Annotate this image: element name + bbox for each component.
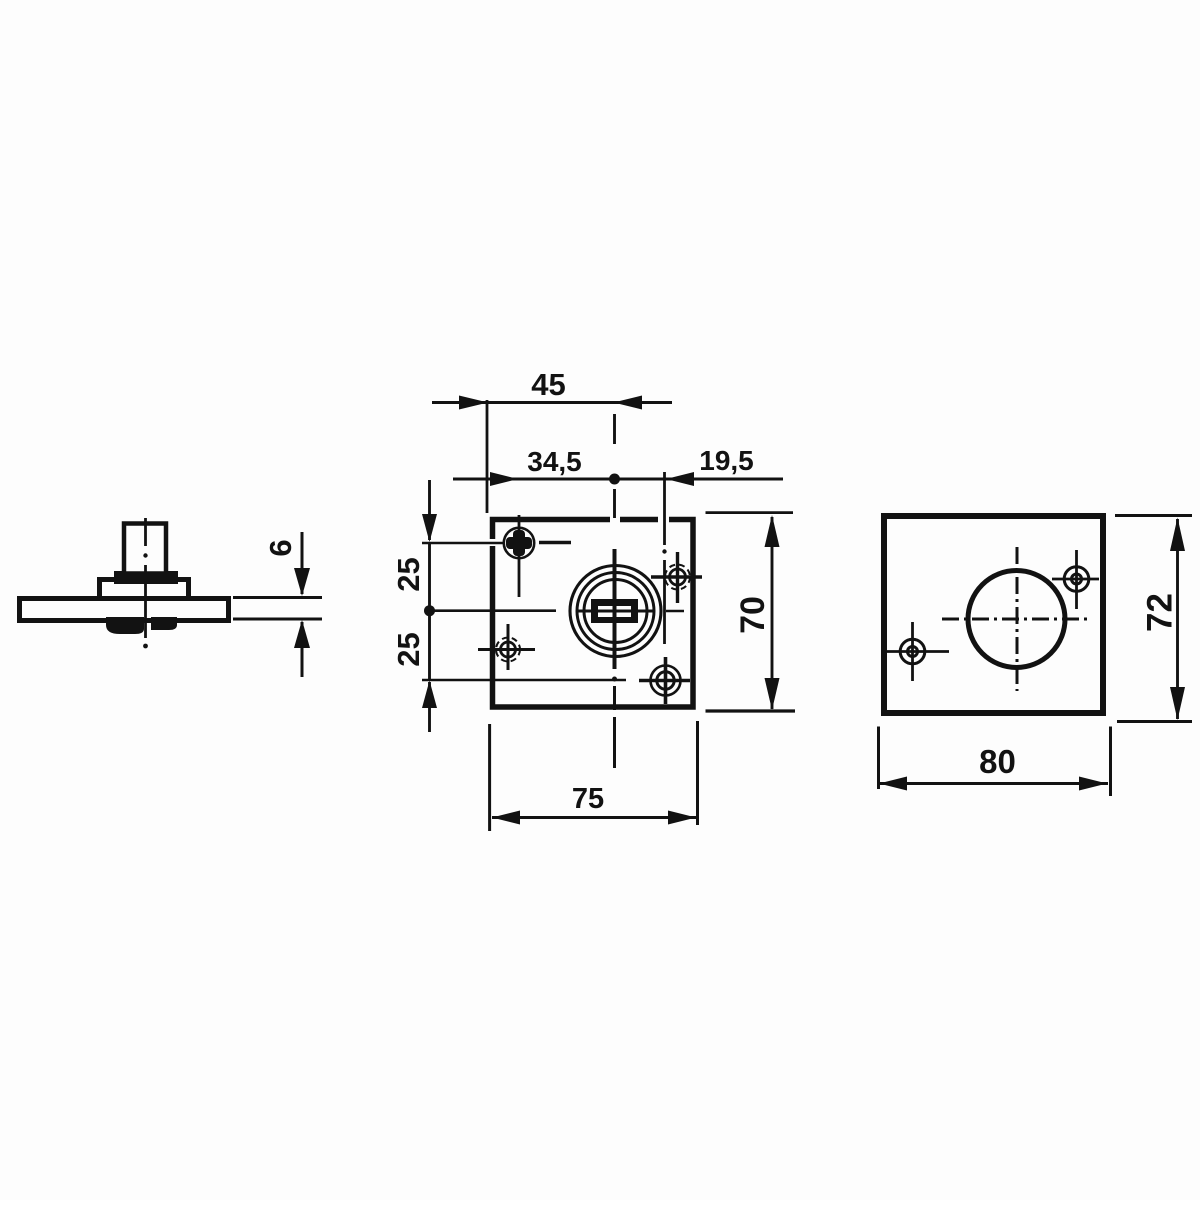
svg-text:70: 70: [734, 596, 772, 634]
hole H1 top-right: [651, 552, 702, 603]
left 25/25 dimension line: [428, 480, 431, 732]
dim 75 dimension line: [492, 816, 696, 819]
side view centerline: [144, 518, 147, 638]
svg-text:25: 25: [391, 632, 426, 666]
svg-text:75: 75: [572, 783, 604, 815]
keyhole slot: [591, 599, 638, 623]
stem (spindle): [124, 524, 166, 574]
dim 45: dimension line: [432, 401, 672, 404]
vertical centerline of front view: [613, 414, 616, 768]
dim 70 extension lines: [706, 513, 796, 711]
hole H4 bottom-left: [884, 622, 949, 681]
svg-text:72: 72: [1141, 593, 1180, 632]
svg-text:34,5: 34,5: [527, 446, 582, 477]
horizontal mid line y=611: [430, 609, 684, 612]
front plate outline 75x70: [493, 520, 694, 708]
hole H2 lower-left: [478, 624, 535, 670]
dim 80 dimension line: [879, 782, 1108, 785]
hole H3 top-right: [1052, 550, 1099, 609]
dim 34,5 / 19,5 dimension line: [453, 478, 783, 481]
bore hole (large circle): [968, 571, 1065, 668]
25 extension lines: [422, 543, 626, 680]
gap in left edge at screw line: [487, 539, 496, 546]
dim 80 extension lines: [879, 727, 1111, 797]
dim 45: extension line: [486, 400, 489, 513]
flange plate (side view bar): [20, 599, 229, 621]
gap in top edge at centerline: [610, 514, 620, 523]
svg-text:25: 25: [391, 557, 426, 591]
bore crosshair vertical: [1016, 547, 1019, 691]
dim 45: arrows: [459, 396, 642, 410]
stem collar fill: [114, 571, 178, 584]
lock cylinder face (3 concentric circles): [570, 566, 661, 657]
dim 6 dimension line + arrows: [301, 532, 304, 677]
bore crosshair horizontal: [942, 618, 1087, 621]
dim 75 extension lines: [490, 721, 698, 831]
node: centerline junction dot on 34.5 dim: [609, 474, 620, 485]
svg-text:19,5: 19,5: [699, 445, 754, 476]
dim 72 dimension line: [1176, 519, 1179, 719]
19.5 offset line (dash-dot): [663, 472, 666, 644]
svg-text:80: 80: [979, 743, 1016, 780]
dim 72 extension lines: [1115, 516, 1192, 722]
door plate outline: [884, 516, 1103, 713]
dim 6 extension lines: [233, 598, 322, 620]
screw S1 top-left (phillips): [504, 515, 571, 597]
latch blob under plate: [106, 617, 177, 634]
svg-text:6: 6: [263, 539, 298, 556]
gap in top edge at 19.5 line: [658, 514, 669, 523]
screw S2 bottom-right: [639, 657, 690, 704]
boss (stepped hub): [100, 580, 189, 599]
svg-text:45: 45: [531, 367, 565, 402]
dim 70 dimension line: [771, 517, 774, 709]
